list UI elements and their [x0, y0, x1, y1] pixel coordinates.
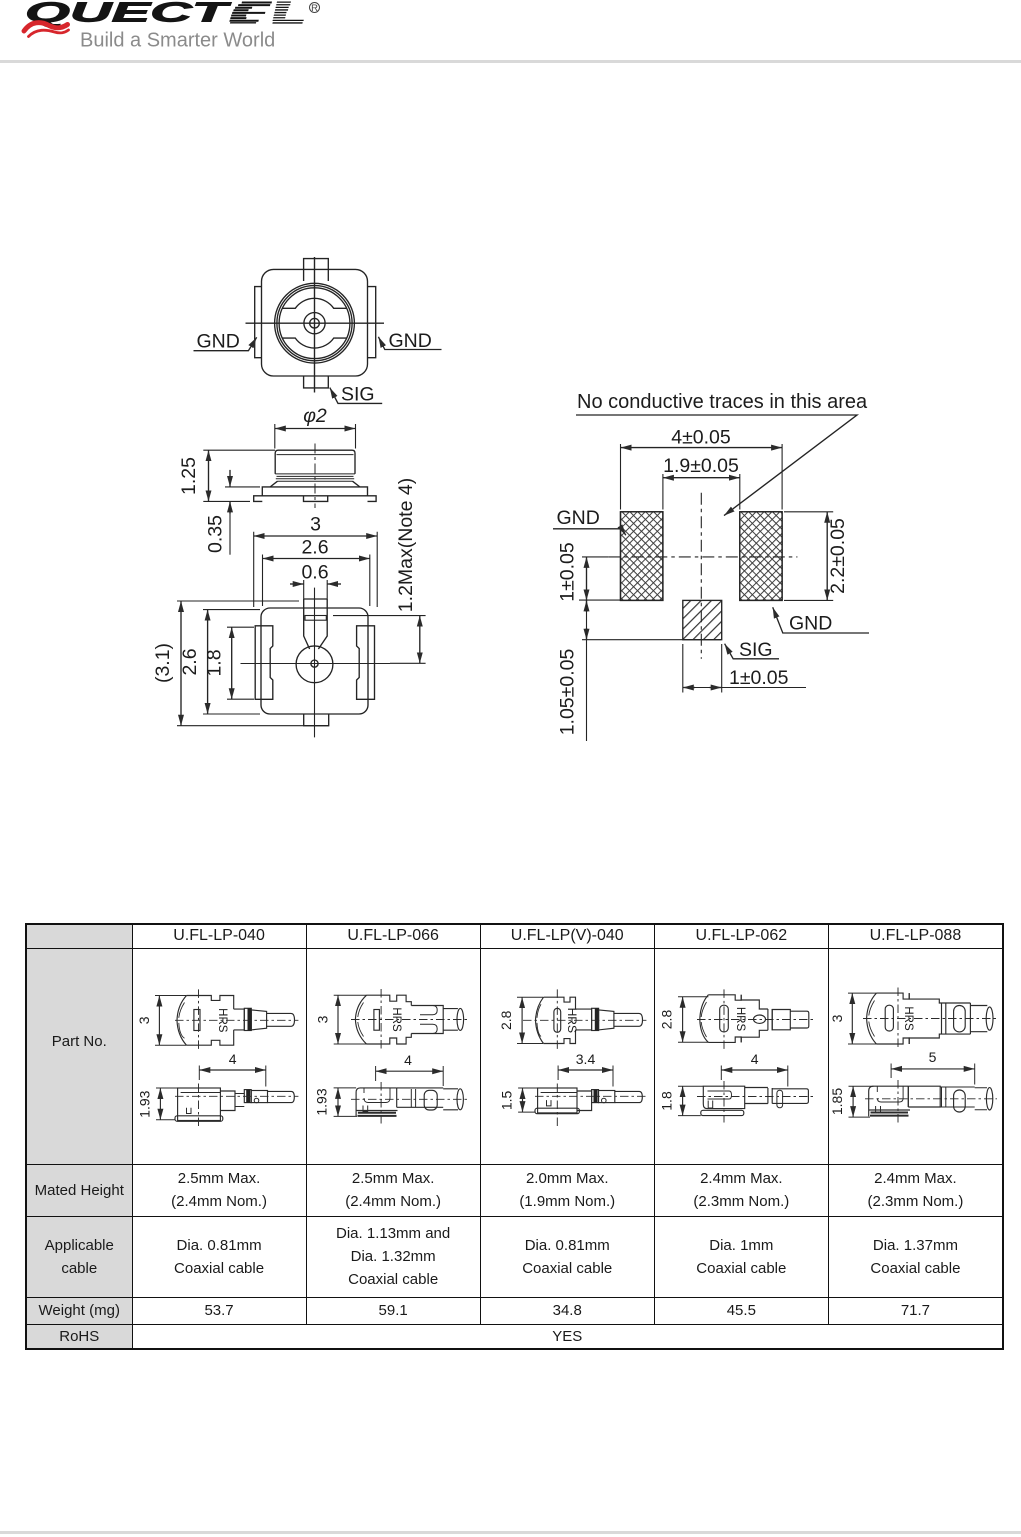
flange plate: [262, 487, 367, 496]
SIG pad: [683, 600, 722, 639]
svg-text:3: 3: [829, 1014, 845, 1022]
svg-text:1.8: 1.8: [204, 649, 226, 676]
latch block: [575, 1009, 591, 1030]
side view band: [940, 1087, 975, 1107]
right foot: [368, 496, 377, 502]
svg-text:2.2±0.05: 2.2±0.05: [827, 518, 849, 594]
side view bottom flange: [175, 1115, 223, 1121]
bottom rule: [0, 1531, 1021, 1534]
center notch: [304, 496, 328, 502]
svg-text:3: 3: [314, 1015, 330, 1023]
side view centerlines: [175, 1095, 298, 1097]
left GND pad: [621, 512, 663, 601]
Quectel logo: [0, 0, 340, 62]
side view shell: [744, 1087, 767, 1103]
bottom view bottom tab: [304, 714, 329, 726]
side view latch slot: [777, 1090, 783, 1108]
red swoosh: [24, 23, 68, 31]
plug shell slot: [554, 1008, 561, 1032]
svg-text:No conductive traces in this a: No conductive traces in this area: [577, 391, 868, 413]
barrel: [970, 1003, 987, 1034]
svg-text:2.8: 2.8: [498, 1010, 514, 1030]
right pad: [357, 626, 375, 700]
plug top view body: [866, 993, 876, 1044]
side view body: [537, 1088, 576, 1113]
svg-text:2.6: 2.6: [301, 537, 328, 559]
svg-text:GND: GND: [389, 330, 432, 352]
plug top view body: [700, 994, 709, 1042]
svg-text:SIG: SIG: [739, 639, 773, 661]
contact bar: [305, 616, 326, 621]
svg-text:1.25: 1.25: [178, 457, 200, 495]
svg-text:φ2: φ2: [303, 405, 327, 427]
striped E: [229, 2, 272, 24]
side view rounded slot: [953, 1090, 965, 1112]
svg-text:3: 3: [136, 1016, 152, 1024]
svg-text:1±0.05: 1±0.05: [729, 667, 789, 689]
side view cable: [267, 1091, 294, 1102]
barrel: [598, 1009, 613, 1029]
ferrule band: [768, 1009, 772, 1030]
side view shell: [396, 1087, 443, 1106]
shell block: [411, 1005, 443, 1033]
svg-text:0.35: 0.35: [205, 515, 227, 553]
top view centerlines: [175, 1019, 298, 1021]
left foot: [254, 496, 263, 502]
side view cable: [443, 1088, 458, 1109]
side view ferrule: [244, 1089, 251, 1102]
side view cable: [614, 1091, 642, 1102]
svg-text:1.9±0.05: 1.9±0.05: [663, 455, 739, 477]
cable open end: [443, 1008, 458, 1030]
cable open end: [986, 1007, 993, 1030]
parts table: [25, 923, 1004, 1350]
registered mark: [310, 3, 320, 13]
side view body: [177, 1088, 220, 1121]
top view body: [262, 269, 368, 376]
side view rounded slot: [424, 1090, 437, 1110]
bottom view crosshair: [241, 588, 391, 738]
svg-text:0.6: 0.6: [301, 562, 328, 584]
plug top view body: [355, 995, 366, 1044]
side view body: [703, 1086, 744, 1108]
svg-text:1.93: 1.93: [313, 1088, 329, 1115]
shell rounded slot: [953, 1005, 965, 1031]
svg-text:(3.1): (3.1): [152, 643, 174, 683]
plug top view body: [535, 997, 543, 1043]
barrel: [251, 1009, 266, 1029]
footprint centerline horizontal: [608, 556, 797, 558]
svg-text:5: 5: [928, 1049, 936, 1065]
svg-text:GND: GND: [557, 507, 600, 529]
latch block: [233, 1009, 244, 1030]
svg-text:2.6: 2.6: [179, 648, 201, 675]
side view body: [356, 1087, 397, 1116]
svg-text:1.2Max(Note 4): 1.2Max(Note 4): [395, 478, 417, 612]
svg-text:GND: GND: [789, 613, 832, 635]
side view body: [869, 1086, 910, 1116]
bottom view body: [261, 608, 368, 714]
knurl rings: [275, 474, 355, 481]
coaxial cable: [790, 1011, 809, 1028]
crosshair vertical: [314, 257, 316, 393]
side view barrel: [598, 1090, 614, 1102]
side view shell: [908, 1086, 940, 1107]
side view centerlines: [351, 1098, 469, 1100]
svg-text:1.05±0.05: 1.05±0.05: [557, 649, 579, 736]
contact circle: [296, 646, 333, 683]
coaxial cable: [614, 1013, 643, 1026]
side view bottom flange: [357, 1112, 396, 1115]
outer ring circles: [275, 283, 355, 363]
cap cylinder: [275, 450, 355, 474]
side view centerline: [314, 444, 316, 509]
plug top view body: [177, 995, 187, 1045]
neck: [270, 481, 360, 487]
shell bottom hook: [420, 1024, 437, 1033]
coaxial cable: [266, 1013, 294, 1026]
bottom contact arc: [283, 338, 347, 348]
right GND pad: [740, 512, 782, 601]
left tab: [255, 287, 262, 358]
bottom tab: [304, 376, 329, 388]
side view ferrule band: [768, 1088, 772, 1104]
top tab: [304, 259, 329, 281]
svg-text:1.8: 1.8: [658, 1091, 674, 1111]
side view bottom flange: [701, 1110, 744, 1115]
side view bottom flange: [535, 1108, 579, 1114]
side view centerlines: [535, 1095, 646, 1097]
shell oval hole: [753, 1015, 765, 1023]
side view cable: [772, 1088, 808, 1103]
plug shell slot: [373, 1009, 379, 1030]
shell band: [941, 1003, 945, 1034]
top contact arc: [283, 298, 347, 308]
svg-text:3.4: 3.4: [575, 1051, 595, 1067]
top view centerlines: [697, 1018, 815, 1020]
crosshair horizontal: [246, 322, 385, 324]
top view centerlines: [351, 1018, 469, 1020]
svg-text:3: 3: [310, 514, 321, 536]
center contact circle: [304, 313, 325, 334]
svg-text:1±0.05: 1±0.05: [557, 542, 579, 602]
svg-text:GND: GND: [197, 331, 240, 353]
side view centerlines: [697, 1095, 815, 1097]
plug shell slot: [885, 1005, 893, 1031]
footprint centerline vertical: [700, 493, 702, 659]
svg-text:4±0.05: 4±0.05: [671, 427, 731, 449]
shell top hook: [420, 1005, 437, 1014]
contact hole: [311, 660, 318, 667]
top rule: [0, 60, 1021, 63]
svg-text:1.93: 1.93: [136, 1090, 152, 1117]
right tab: [368, 287, 376, 358]
svg-text:4: 4: [404, 1052, 412, 1068]
barrel: [772, 1009, 790, 1029]
svg-text:1.5: 1.5: [498, 1090, 514, 1110]
svg-text:1.85: 1.85: [829, 1087, 845, 1114]
svg-text:SIG: SIG: [341, 384, 375, 406]
side view bottom flange: [870, 1112, 909, 1115]
side view barrel: [251, 1090, 267, 1102]
svg-text:4: 4: [228, 1051, 236, 1067]
side view centerlines: [865, 1097, 997, 1099]
crimp ferrule: [591, 1008, 598, 1030]
crimp ferrule: [244, 1008, 251, 1030]
center hole: [310, 318, 320, 328]
svg-text:4: 4: [750, 1051, 758, 1067]
striped L: [272, 2, 308, 24]
left pad: [255, 626, 273, 700]
plug shell slot: [719, 1005, 728, 1032]
svg-text:2.8: 2.8: [658, 1009, 674, 1029]
top view centerlines: [863, 1017, 997, 1019]
side view ferrule: [591, 1089, 598, 1102]
plug shell slot: [193, 1009, 199, 1030]
center contact strip: [304, 599, 328, 649]
side view cable end: [986, 1087, 992, 1109]
top view centerlines: [523, 1019, 646, 1021]
